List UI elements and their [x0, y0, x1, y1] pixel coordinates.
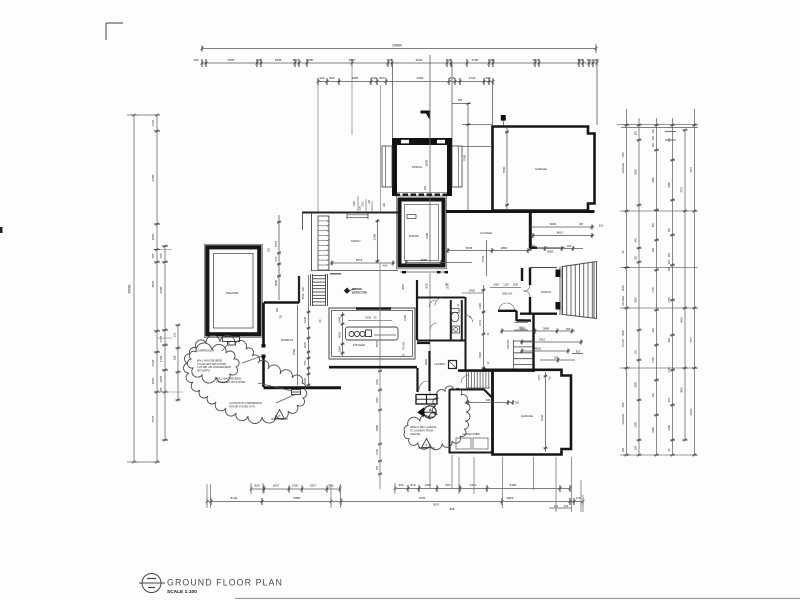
svg-text:LOUNGE: LOUNGE	[622, 295, 625, 306]
svg-text:300: 300	[566, 327, 571, 331]
porch north east wall	[447, 145, 452, 196]
bottom dim row A left line	[251, 488, 340, 490]
svg-text:800: 800	[652, 222, 655, 227]
svg-text:STUDY: STUDY	[622, 338, 625, 347]
landing revision cloud	[404, 386, 470, 450]
svg-text:6670: 6670	[349, 58, 356, 62]
porch west wing pier	[382, 146, 392, 187]
svg-text:165: 165	[668, 252, 671, 257]
porch centre axis line 8000	[429, 138, 431, 194]
left chain 2 ticks	[154, 114, 160, 116]
entry dims 1065 1100 1180	[490, 287, 521, 289]
svg-text:1445: 1445	[338, 317, 342, 323]
svg-text:185: 185	[276, 307, 279, 312]
svg-text:7900: 7900	[463, 154, 467, 161]
svg-text:5030: 5030	[228, 58, 235, 62]
bottom witness verticals	[206, 484, 208, 508]
svg-text:185: 185	[446, 58, 451, 62]
svg-text:1200: 1200	[292, 484, 299, 488]
svg-text:5410: 5410	[539, 338, 546, 342]
svg-text:2960: 2960	[151, 233, 155, 240]
family west wall lines	[311, 213, 313, 272]
svg-text:LOCATION OF COMPRESSOR: LOCATION OF COMPRESSOR	[229, 402, 262, 405]
dining room outer line	[397, 196, 447, 269]
svg-text:A: A	[429, 408, 432, 412]
top dimension row 3 ticks	[317, 78, 319, 85]
svg-text:1380: 1380	[478, 303, 482, 309]
svg-text:GARAGE: GARAGE	[521, 414, 533, 418]
svg-text:4920: 4920	[635, 297, 638, 303]
rumpus south wall	[264, 386, 342, 389]
svg-text:CYCLE SPLIT AIR SYSTEM: CYCLE SPLIT AIR SYSTEM	[216, 381, 245, 384]
rumpus west wall with door jambs	[262, 303, 265, 345]
svg-text:404: 404	[668, 397, 671, 402]
witness line x352 upper	[351, 63, 353, 135]
porch north top band wall	[392, 138, 452, 145]
witness centre axis through hall	[429, 273, 431, 395]
svg-text:7500: 7500	[292, 348, 296, 355]
cluster mid wall south	[417, 340, 466, 342]
theatre room outer line	[204, 244, 262, 337]
svg-text:300: 300	[567, 244, 572, 248]
svg-text:2913: 2913	[302, 293, 305, 299]
family louvre window strip	[318, 216, 329, 270]
svg-text:SCALE 1:100: SCALE 1:100	[167, 589, 197, 595]
svg-text:PORCH: PORCH	[412, 165, 422, 169]
svg-text:800: 800	[652, 327, 655, 332]
svg-text:1705: 1705	[652, 287, 655, 293]
svg-text:1288: 1288	[652, 427, 655, 433]
kitchen west internal dim chain	[342, 312, 344, 356]
svg-text:404: 404	[428, 414, 433, 418]
svg-text:5089: 5089	[421, 258, 428, 262]
left chain stub lines	[127, 114, 160, 116]
svg-text:8610: 8610	[557, 231, 564, 235]
svg-text:185: 185	[387, 58, 392, 62]
south porch west double doors	[524, 285, 531, 297]
svg-text:610: 610	[599, 224, 604, 228]
svg-text:185: 185	[668, 266, 671, 271]
svg-text:730: 730	[280, 314, 283, 319]
entry vertical dim chain x483	[483, 285, 485, 370]
wc vanity basin	[452, 326, 460, 333]
top dimension row overall 20884	[202, 48, 596, 50]
right chain 6 line x694	[694, 109, 696, 455]
south porch pillar north	[556, 270, 561, 278]
svg-text:4620: 4620	[151, 359, 155, 366]
stairs2 treads	[468, 372, 470, 389]
svg-text:B: B	[279, 414, 281, 418]
left overall chain 30000	[133, 115, 135, 462]
bottom dim row A right line	[395, 488, 570, 490]
svg-text:5675: 5675	[151, 415, 155, 422]
svg-text:1170: 1170	[151, 120, 155, 127]
witness line centre 8000 axis upper	[429, 55, 431, 138]
svg-text:FAMILY: FAMILY	[351, 239, 361, 243]
kitchen outer double wall box	[329, 308, 415, 359]
cluster north wall	[417, 297, 465, 299]
svg-text:4548: 4548	[424, 359, 428, 365]
east dim row 4802 810	[520, 350, 570, 352]
svg-text:RUMPUS: RUMPUS	[281, 338, 293, 342]
dim line 7900 vertical	[467, 104, 469, 211]
svg-text:B: B	[426, 443, 428, 447]
svg-text:3790: 3790	[472, 58, 479, 62]
garage north outline with notched east corners	[493, 127, 595, 211]
svg-text:8070: 8070	[151, 280, 155, 287]
svg-text:828: 828	[450, 507, 455, 511]
svg-text:GARAGE.: GARAGE.	[410, 433, 421, 436]
svg-text:2173: 2173	[478, 320, 482, 326]
svg-text:4600: 4600	[681, 317, 684, 323]
svg-text:165: 165	[652, 142, 655, 147]
svg-text:790 835: 790 835	[404, 341, 406, 350]
flag marker on centre axis	[421, 111, 430, 120]
dining bottom sill dashes	[400, 271, 448, 273]
witness line from top dims to porch left	[392, 63, 394, 138]
south porch west wall with door gap	[529, 268, 531, 286]
lounge east wall lower stub	[530, 246, 537, 248]
svg-text:810: 810	[576, 350, 581, 354]
left chain 4 line	[177, 325, 179, 400]
svg-text:1790: 1790	[353, 201, 356, 207]
left chain horizontal stubs	[157, 249, 172, 251]
triangle marker B1	[275, 410, 285, 419]
top dimension row 3 line	[318, 81, 493, 83]
svg-text:4030: 4030	[338, 332, 342, 338]
svg-text:845: 845	[371, 76, 376, 80]
lounge east wall	[529, 210, 532, 248]
garage2 internal dim 6240	[545, 372, 547, 452]
svg-text:2135: 2135	[403, 315, 407, 321]
laundry meter box window	[416, 395, 437, 405]
rumpus north wall	[264, 301, 299, 304]
svg-text:185: 185	[151, 253, 155, 258]
svg-text:185: 185	[256, 58, 261, 62]
dim 185 porch-garage	[452, 103, 468, 105]
kitchen island bench	[346, 327, 399, 340]
family floor south line	[311, 270, 398, 272]
svg-text:430: 430	[564, 504, 569, 508]
svg-text:1827: 1827	[310, 484, 317, 488]
family vertical dim 2300	[377, 219, 379, 263]
svg-text:430: 430	[302, 286, 305, 291]
svg-text:3 L/S MIN. AIR CHANGE/FRESH: 3 L/S MIN. AIR CHANGE/FRESH	[197, 366, 231, 369]
witness line to garage right	[596, 63, 598, 125]
dining inner wall line	[405, 205, 439, 261]
svg-text:6486: 6486	[375, 425, 379, 431]
deck steps fan	[563, 262, 597, 319]
svg-text:930: 930	[319, 76, 324, 80]
svg-text:300: 300	[635, 349, 638, 354]
svg-text:1200: 1200	[375, 449, 379, 455]
svg-text:1706: 1706	[652, 357, 655, 363]
svg-text:SMOKE: SMOKE	[352, 287, 362, 291]
svg-text:2520: 2520	[478, 352, 482, 358]
svg-text:210: 210	[173, 332, 177, 337]
family north small recess	[407, 215, 416, 219]
south porch top and bottom lines	[530, 267, 557, 269]
svg-text:3580 O/A: 3580 O/A	[502, 293, 513, 296]
svg-text:KITCHEN: KITCHEN	[353, 343, 365, 347]
svg-text:DETECTOR: DETECTOR	[352, 290, 367, 294]
witness line kitchen axis long	[379, 263, 381, 489]
left chain 2 line	[156, 115, 158, 462]
wc toilet	[451, 312, 459, 322]
svg-text:185: 185	[652, 128, 655, 133]
main stair treads	[313, 275, 326, 277]
svg-text:COMPRESSOR: COMPRESSOR	[196, 350, 214, 353]
top dimension row 2 ticks	[201, 59, 203, 67]
family north small dim labels	[357, 196, 359, 212]
svg-text:7200: 7200	[425, 232, 429, 239]
theatre compressor unit below wall	[223, 337, 240, 342]
svg-text:185: 185	[424, 185, 427, 190]
right chains cross witness lines	[620, 210, 698, 212]
svg-text:2220: 2220	[375, 379, 379, 385]
benchmark marker near garage top-left	[501, 115, 506, 121]
svg-text:30000: 30000	[128, 284, 132, 293]
svg-text:7900: 7900	[622, 152, 625, 158]
svg-text:1827: 1827	[425, 483, 432, 487]
east dim row 5410	[520, 341, 583, 343]
svg-text:1845: 1845	[338, 346, 342, 352]
svg-text:8140: 8140	[231, 496, 238, 500]
entry dim 2450	[462, 292, 483, 294]
compressor cloud inner lobe	[187, 343, 239, 383]
svg-text:6240: 6240	[540, 414, 544, 421]
stairs2 door arc	[461, 375, 469, 383]
right chains top connector lines	[617, 124, 698, 126]
svg-text:DINING: DINING	[409, 234, 419, 238]
rumpus vertical dim chain x308	[308, 275, 310, 387]
porch north west wall	[392, 145, 397, 196]
svg-text:3000: 3000	[352, 76, 359, 80]
stairs2 boundary	[466, 371, 468, 388]
kitchen bench inner line	[374, 334, 396, 336]
svg-text:8000: 8000	[425, 159, 429, 166]
svg-text:525: 525	[485, 76, 490, 80]
entry east wall	[532, 313, 534, 372]
lounge dim 6000	[531, 226, 595, 228]
top dimension row 2 line	[202, 62, 597, 64]
svg-text:175: 175	[575, 496, 580, 500]
svg-text:2935: 2935	[275, 58, 282, 62]
svg-text:185: 185	[375, 465, 379, 470]
east dim row 1810 2868 300	[500, 330, 575, 332]
svg-text:5885: 5885	[294, 496, 301, 500]
kitchen cooktop circles	[349, 332, 354, 337]
svg-text:5070: 5070	[375, 341, 379, 347]
svg-text:185: 185	[652, 247, 655, 252]
svg-text:1865: 1865	[151, 377, 155, 384]
garden shed benches	[456, 438, 471, 449]
svg-text:LOUNGE: LOUNGE	[480, 231, 492, 235]
svg-text:7530: 7530	[365, 316, 372, 320]
witness line porch right	[451, 63, 453, 146]
svg-text:2742: 2742	[469, 76, 476, 80]
svg-text:1180: 1180	[513, 284, 519, 287]
lounge dim 8610	[531, 235, 595, 237]
svg-text:THEATRE: THEATRE	[226, 291, 239, 295]
rumpus vertical dim 7500	[297, 305, 299, 385]
svg-text:1288: 1288	[635, 422, 638, 428]
svg-text:ENTRY: ENTRY	[506, 339, 510, 349]
svg-text:185: 185	[635, 255, 638, 260]
family area vertical dims west	[278, 215, 280, 300]
south porch pillar south	[556, 302, 561, 310]
witness lines from plan bottom	[451, 455, 453, 488]
svg-text:825: 825	[445, 483, 450, 487]
dining dim 5089	[406, 262, 472, 264]
dining vertical dim 7200	[429, 196, 431, 262]
porch east wing pier	[452, 146, 462, 187]
svg-text:1065: 1065	[493, 284, 499, 287]
smoke detector symbol	[344, 288, 350, 294]
svg-text:8090: 8090	[622, 285, 625, 291]
garage2 outline with notched east corners	[493, 370, 572, 455]
svg-text:2868: 2868	[543, 327, 550, 331]
svg-text:185: 185	[652, 392, 655, 397]
svg-text:GARAGE: GARAGE	[622, 413, 625, 424]
svg-text:1227: 1227	[362, 201, 365, 207]
south porch east boundary	[559, 267, 561, 316]
svg-text:185: 185	[489, 58, 494, 62]
door arc entry to alfresco	[419, 381, 428, 390]
svg-text:2300: 2300	[373, 233, 377, 240]
right chains mini dims near top	[665, 131, 676, 133]
svg-text:425: 425	[668, 259, 671, 264]
svg-text:4802: 4802	[535, 347, 542, 351]
svg-text:7673: 7673	[690, 167, 693, 173]
svg-text:100: 100	[292, 58, 297, 62]
svg-text:5380: 5380	[652, 177, 655, 183]
garage internal dim 7800	[506, 127, 508, 210]
kitchen south thick wall	[329, 366, 417, 369]
svg-text:2725: 2725	[159, 335, 163, 342]
svg-text:185: 185	[159, 387, 163, 392]
svg-text:AIR SUPPLY: AIR SUPPLY	[197, 369, 211, 372]
svg-text:2070: 2070	[303, 341, 307, 348]
garden shed outline	[450, 390, 493, 453]
family dim 8479	[330, 262, 395, 264]
svg-text:7235: 7235	[481, 255, 485, 262]
svg-text:300: 300	[398, 483, 403, 487]
svg-text:WALL HUNG REVERSE: WALL HUNG REVERSE	[216, 378, 242, 381]
svg-text:WALL HUNG REVERSE: WALL HUNG REVERSE	[197, 360, 223, 363]
section marker A404 arrow	[417, 407, 424, 417]
svg-text:1706: 1706	[668, 367, 671, 373]
svg-text:3935: 3935	[402, 284, 405, 290]
svg-text:8200: 8200	[159, 286, 163, 293]
scan artifact left edge	[0, 227, 3, 233]
svg-text:5020: 5020	[416, 58, 423, 62]
family north wall	[302, 212, 398, 214]
svg-text:4815: 4815	[486, 398, 493, 402]
svg-text:400: 400	[383, 264, 388, 268]
porch north bottom dashed sill	[395, 194, 401, 197]
title symbol circle	[142, 574, 161, 593]
svg-text:860: 860	[329, 76, 334, 80]
svg-text:4288: 4288	[635, 382, 638, 388]
svg-text:7800: 7800	[622, 402, 625, 408]
svg-text:186: 186	[622, 447, 625, 452]
svg-text:20884: 20884	[392, 44, 402, 48]
svg-text:185: 185	[515, 402, 520, 405]
svg-text:800: 800	[635, 130, 638, 135]
svg-text:185: 185	[268, 247, 271, 252]
svg-text:1810: 1810	[375, 397, 379, 403]
hall door arcs	[466, 315, 473, 322]
svg-text:1275: 1275	[538, 375, 541, 381]
svg-text:750: 750	[303, 360, 307, 365]
svg-text:8390: 8390	[635, 169, 638, 175]
theatre inner wall line	[214, 254, 254, 329]
svg-text:6545: 6545	[466, 246, 473, 250]
svg-text:9815: 9815	[507, 496, 514, 500]
svg-text:1827: 1827	[273, 484, 280, 488]
svg-text:LAUNDRY: LAUNDRY	[434, 363, 446, 366]
svg-text:8185: 8185	[510, 483, 517, 487]
svg-text:2450: 2450	[469, 289, 476, 293]
east dim row 185	[540, 359, 575, 361]
svg-text:6000: 6000	[550, 222, 557, 226]
hall east wall	[465, 297, 467, 370]
entry north wall	[498, 310, 517, 312]
triangle marker B2	[422, 439, 432, 448]
svg-text:2860: 2860	[501, 246, 508, 250]
svg-text:1448: 1448	[303, 316, 307, 323]
svg-text:8479: 8479	[356, 258, 363, 262]
laundry west wall	[428, 351, 430, 391]
svg-text:472: 472	[274, 256, 278, 261]
scan artifact bottom page edge	[235, 597, 800, 599]
compressor unit below rumpus wall	[292, 390, 301, 395]
right chain 5 line x685	[684, 130, 686, 440]
right chain 3 line x656	[656, 118, 658, 455]
entry north double doors	[499, 303, 515, 311]
east stair treads	[513, 340, 515, 372]
svg-text:1288: 1288	[668, 425, 671, 431]
svg-text:3030: 3030	[426, 283, 429, 289]
section marker A404 circle	[424, 406, 436, 418]
svg-text:7873: 7873	[690, 337, 693, 343]
svg-text:GARAGE: GARAGE	[622, 162, 625, 173]
svg-text:185: 185	[458, 98, 463, 102]
svg-text:4775: 4775	[274, 240, 278, 247]
svg-text:7620: 7620	[419, 496, 426, 500]
svg-text:7800: 7800	[502, 166, 506, 173]
svg-text:1100: 1100	[503, 284, 509, 287]
svg-text:3868: 3868	[547, 250, 554, 254]
svg-text:800: 800	[668, 337, 671, 342]
svg-text:CYCLE SPLIT AIR SYSTEM: CYCLE SPLIT AIR SYSTEM	[197, 363, 226, 366]
svg-text:7873: 7873	[681, 187, 684, 193]
svg-text:2082: 2082	[622, 330, 625, 336]
svg-text:164: 164	[635, 445, 638, 450]
svg-text:FOR AIR SYSTEM (TYP.): FOR AIR SYSTEM (TYP.)	[229, 405, 255, 408]
svg-text:6700: 6700	[151, 174, 155, 181]
svg-text:GARAGE: GARAGE	[535, 167, 547, 171]
svg-text:185: 185	[193, 58, 198, 62]
right chain 4 line x672	[672, 118, 674, 455]
wc room walls	[450, 300, 452, 340]
left chain 3 line	[164, 246, 166, 440]
svg-text:190: 190	[593, 58, 598, 62]
svg-text:810: 810	[410, 483, 415, 487]
lounge dim 3868 row	[529, 248, 583, 250]
porch north bottom sill line	[397, 192, 447, 194]
